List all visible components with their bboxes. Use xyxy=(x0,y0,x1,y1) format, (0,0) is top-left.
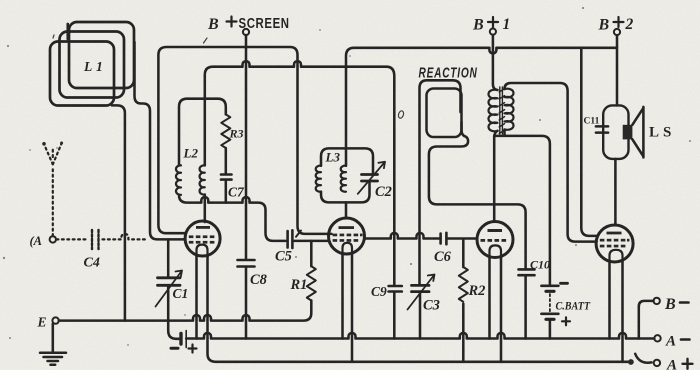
svg-text:B: B xyxy=(207,16,219,33)
svg-text:SCREEN: SCREEN xyxy=(239,14,290,31)
wire L2 frame and R3 top xyxy=(179,99,226,166)
tube V1 filament xyxy=(197,245,208,257)
svg-text:B: B xyxy=(598,17,610,34)
svg-text:C8: C8 xyxy=(250,272,268,288)
C.BATT minus plus xyxy=(561,282,568,285)
svg-text:C.BATT: C.BATT xyxy=(556,300,591,313)
svg-text:C10: C10 xyxy=(530,258,550,272)
wire tube1 anode riser xyxy=(204,195,207,223)
svg-text:C2: C2 xyxy=(375,184,392,200)
svg-text:C11: C11 xyxy=(584,117,600,127)
wire speaker unit to tube4 anode xyxy=(614,159,617,225)
stray scan marks xyxy=(53,35,404,119)
tube V1 grid rows xyxy=(189,235,215,243)
wire tube2 filament legs xyxy=(341,254,344,339)
terminal B+2 xyxy=(614,29,620,35)
svg-text:(A: (A xyxy=(30,234,43,248)
svg-text:LS: LS xyxy=(649,125,675,141)
variable capacitor C2 xyxy=(362,175,378,182)
stray tick mark at rail corner xyxy=(296,231,301,237)
tube V4 envelope xyxy=(596,225,633,262)
ground xyxy=(52,324,55,352)
antenna dashed xyxy=(44,144,61,236)
coil L3 right winding xyxy=(341,166,346,192)
switch dot on A+ bus xyxy=(628,359,634,365)
svg-text:R1: R1 xyxy=(290,277,308,293)
capacitor C7 xyxy=(221,175,232,180)
wire rail1b: B+2 rail to L3 top, dip under B+1 xyxy=(346,48,617,166)
svg-text:B: B xyxy=(664,296,676,313)
capacitor C4 dashed plates xyxy=(92,230,99,249)
svg-text:E: E xyxy=(37,315,47,330)
svg-text:C4: C4 xyxy=(84,256,100,271)
wire transformer secondary top to tube4 grid xyxy=(505,83,597,242)
transformer T1 primary winding xyxy=(489,90,498,132)
resistor R1 grid leak xyxy=(310,241,313,266)
terminal A xyxy=(50,236,56,242)
wire tube4 filament legs xyxy=(608,262,611,339)
tube V2 filament xyxy=(343,243,353,254)
wire grid coupling tube2 to tube3 with hops and C6 xyxy=(365,233,440,239)
svg-text:C1: C1 xyxy=(173,286,189,301)
capacitor C5 xyxy=(288,230,293,248)
wire rail2: tube1 anode rail to C9 drop xyxy=(205,61,394,285)
capacitor C10 xyxy=(519,269,535,275)
svg-text:A: A xyxy=(666,358,677,370)
wire L1 outer end down to E bus xyxy=(112,105,125,320)
variable capacitor C1 xyxy=(158,278,181,286)
wire B+SCREEN drop to C8 xyxy=(245,35,248,259)
svg-text:R2: R2 xyxy=(468,283,486,299)
wire tube1 left filament leg xyxy=(195,256,198,339)
svg-text:R3: R3 xyxy=(229,127,244,141)
terminal B- xyxy=(654,298,660,304)
variable capacitor C3 xyxy=(412,285,430,291)
wire B+screen rail (rail1) feeding tube1 and tube2 screen grids xyxy=(158,47,331,234)
transformer T1 secondary winding xyxy=(505,89,514,130)
loudspeaker unit outline xyxy=(603,105,628,158)
wire L3 bottom to tube2 anode xyxy=(345,202,348,218)
tube V2 envelope xyxy=(329,218,365,254)
tube V1 envelope xyxy=(185,221,220,256)
coil L3 left winding xyxy=(316,166,321,192)
wire tube3 filament legs xyxy=(488,257,491,339)
wire A- bus from battery with hops xyxy=(186,333,654,339)
capacitor C11 xyxy=(596,126,608,132)
svg-text:C9: C9 xyxy=(371,284,387,299)
terminal E with ground xyxy=(52,317,58,323)
tube V3 anode bar xyxy=(488,229,503,232)
coil L3 frame xyxy=(321,148,373,174)
wire R3 to C7 xyxy=(225,148,228,174)
capacitor C8 xyxy=(238,260,255,267)
tube V3 filament xyxy=(490,245,502,257)
resistor R2 grid leak xyxy=(462,240,465,267)
resistor R3 xyxy=(221,114,230,148)
capacitor C9 xyxy=(389,286,402,292)
terminal A- xyxy=(654,335,660,341)
switch arm to A+ terminal xyxy=(635,354,651,363)
wire C2 bottom and L3 bottom line xyxy=(321,182,370,203)
tube V3 grid row xyxy=(481,239,507,242)
wire B+1 drop to transformer primary xyxy=(493,35,498,90)
svg-text:L: L xyxy=(83,59,92,74)
svg-text:C6: C6 xyxy=(434,249,452,265)
svg-text:A: A xyxy=(665,334,676,350)
transformer T1 core xyxy=(499,87,504,134)
tube V4 grid rows xyxy=(600,239,630,248)
svg-text:2: 2 xyxy=(625,16,634,33)
battery C.BATT xyxy=(541,286,558,320)
wire rail1b drop to tube4 screen xyxy=(581,48,597,236)
speaker LS xyxy=(623,125,633,140)
svg-text:C7: C7 xyxy=(228,185,245,200)
wire tube1 right filament leg to A+ bus xyxy=(208,256,631,362)
coil L1 square spiral xyxy=(50,22,134,106)
wire B- terminal to A- bus xyxy=(639,301,654,339)
tube V1 anode bar xyxy=(196,226,210,229)
wire E bus from terminal with hops, corner up to R1 bottom xyxy=(59,300,311,320)
tube V4 filament xyxy=(610,250,623,262)
reaction coil inner turn xyxy=(427,89,462,138)
wire C5 to tube2 grid xyxy=(294,240,329,243)
wire L1 inner end down to tube1 control grid xyxy=(135,42,186,239)
coil L2 right winding xyxy=(200,165,205,194)
tube V2 anode bar xyxy=(339,226,355,229)
svg-text:1: 1 xyxy=(503,16,511,33)
terminal B+SCREEN xyxy=(243,29,249,35)
tube V3 envelope xyxy=(477,222,513,258)
wire C7 bottom xyxy=(225,180,228,203)
svg-text:REACTION: REACTION xyxy=(419,65,478,81)
svg-text:L2: L2 xyxy=(183,146,199,161)
terminal A+ xyxy=(654,360,660,366)
svg-text:B: B xyxy=(472,17,484,34)
battery minus plus xyxy=(171,347,178,350)
battery A (filament) xyxy=(179,334,182,345)
coil L2 left winding xyxy=(176,165,181,194)
svg-text:L3: L3 xyxy=(325,150,341,165)
wire C1 bottom to battery minus xyxy=(168,286,179,339)
wire L2 bottom line with hops, jog down to C5 xyxy=(179,195,286,241)
svg-text:C5: C5 xyxy=(275,249,292,265)
tube V4 anode bar xyxy=(607,232,622,235)
wire C8 bottom to A- bus xyxy=(245,267,248,339)
svg-text:1: 1 xyxy=(96,59,103,74)
capacitor C6 xyxy=(441,233,447,244)
terminal B+1 xyxy=(490,29,496,35)
dashed aerial lead with C4 xyxy=(57,234,147,240)
wire reaction coil tail to C10 xyxy=(429,122,526,269)
wire C1 riser from grid wire xyxy=(167,239,170,277)
tube V2 grid rows xyxy=(333,234,363,242)
wire B+2 drop to speaker unit xyxy=(616,35,619,105)
wire transformer bottom to tube3 anode and to C.BATT xyxy=(494,136,550,284)
svg-text:C3: C3 xyxy=(423,298,440,314)
wire reaction coil left side down to C3 xyxy=(420,80,461,285)
